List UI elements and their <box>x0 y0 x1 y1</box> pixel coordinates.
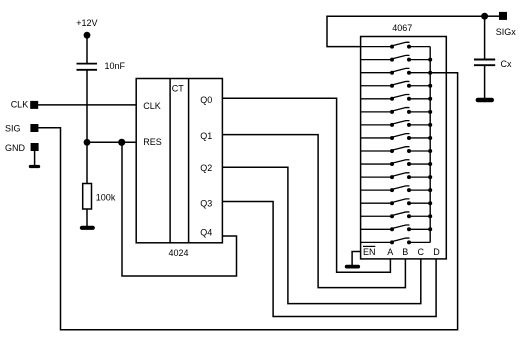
common bus of 4067 <box>429 47 431 243</box>
wire junction to Cx <box>484 16 486 59</box>
svg-text:Q1: Q1 <box>200 131 212 141</box>
node RES junction left <box>84 139 91 146</box>
switch S6 of 4067 <box>361 108 433 114</box>
wire Q3 to 4067 pin D <box>222 202 436 317</box>
svg-text:Q0: Q0 <box>200 95 212 105</box>
IC U2 4067 multiplexer <box>361 23 447 259</box>
switch S11 of 4067 <box>361 173 433 179</box>
IC U1 4024 counter <box>136 79 222 259</box>
svg-text:4067: 4067 <box>392 23 412 33</box>
ground below R1 <box>80 226 95 230</box>
wire RES node to resistor <box>86 142 88 184</box>
wire resistor to ground <box>86 209 88 227</box>
wire Q4 to RES node <box>122 142 237 276</box>
svg-text:Q3: Q3 <box>200 198 212 208</box>
svg-text:B: B <box>402 247 408 257</box>
wire Cx to ground <box>484 66 486 99</box>
wire +12V to capacitor <box>86 35 88 63</box>
svg-text:EN: EN <box>363 247 376 257</box>
svg-text:RES: RES <box>143 137 162 147</box>
wire RES net <box>87 141 136 143</box>
switch S5 of 4067 <box>361 95 433 101</box>
switch S7 of 4067 <box>361 121 433 127</box>
pad GND <box>5 143 39 153</box>
svg-text:CT: CT <box>172 84 184 94</box>
switch S16 of 4067 <box>361 238 431 244</box>
ground at GND pad <box>29 165 40 168</box>
svg-text:Q2: Q2 <box>200 163 212 173</box>
wire GND pad to ground <box>34 151 36 165</box>
wire CLK pad to 4024 CLK pin <box>38 104 136 106</box>
svg-text:A: A <box>387 247 393 257</box>
pad SIG <box>5 124 38 134</box>
pin labels A B C D <box>387 247 440 257</box>
switch S14 of 4067 <box>361 212 433 218</box>
wire capacitor to RES node <box>86 71 88 143</box>
pad CLK <box>11 99 39 109</box>
wire bus exit to SIG riser <box>430 72 457 74</box>
wire junction to SIGx pad <box>485 15 500 17</box>
switch S4 of 4067 <box>361 81 433 87</box>
svg-text:C: C <box>418 247 425 257</box>
+12V supply terminal <box>76 18 97 38</box>
svg-text:4024: 4024 <box>169 248 189 258</box>
svg-text:+12V: +12V <box>76 18 97 28</box>
svg-text:Q4: Q4 <box>200 227 212 237</box>
svg-text:GND: GND <box>5 143 26 153</box>
switch S13 of 4067 <box>361 199 433 205</box>
capacitor C1 10nF <box>77 61 126 71</box>
resistor R1 100k <box>83 184 116 210</box>
wire 4067 common X to top <box>327 16 485 46</box>
capacitor Cx <box>474 59 512 69</box>
pin EN with ground <box>345 246 376 268</box>
svg-text:100k: 100k <box>96 192 116 202</box>
wire SIG net to 4067 common bus <box>38 73 458 330</box>
svg-text:Cx: Cx <box>501 59 512 69</box>
switch S10 of 4067 <box>361 160 433 166</box>
switch S12 of 4067 <box>361 186 433 192</box>
switch S1 of 4067 <box>361 42 431 48</box>
svg-text:10nF: 10nF <box>105 61 126 71</box>
switch S2 of 4067 <box>361 55 433 61</box>
svg-text:SIG: SIG <box>5 124 21 134</box>
switch S9 of 4067 <box>361 147 433 153</box>
wire Q2 to 4067 pin C <box>222 167 420 303</box>
wire Q0 to 4067 pin A <box>222 98 390 272</box>
ground below Cx <box>476 98 494 103</box>
wire Q1 to 4067 pin B <box>222 135 405 288</box>
svg-text:D: D <box>433 247 440 257</box>
switch S15 of 4067 <box>361 225 433 231</box>
switch S3 of 4067 <box>361 68 433 74</box>
svg-text:SIGx: SIGx <box>496 27 517 37</box>
switch S8 of 4067 <box>361 134 433 140</box>
node SIGx junction <box>481 13 488 20</box>
svg-text:CLK: CLK <box>11 99 29 109</box>
node RES junction right <box>118 139 125 146</box>
pad SIGx <box>496 12 517 37</box>
svg-text:CLK: CLK <box>143 101 161 111</box>
